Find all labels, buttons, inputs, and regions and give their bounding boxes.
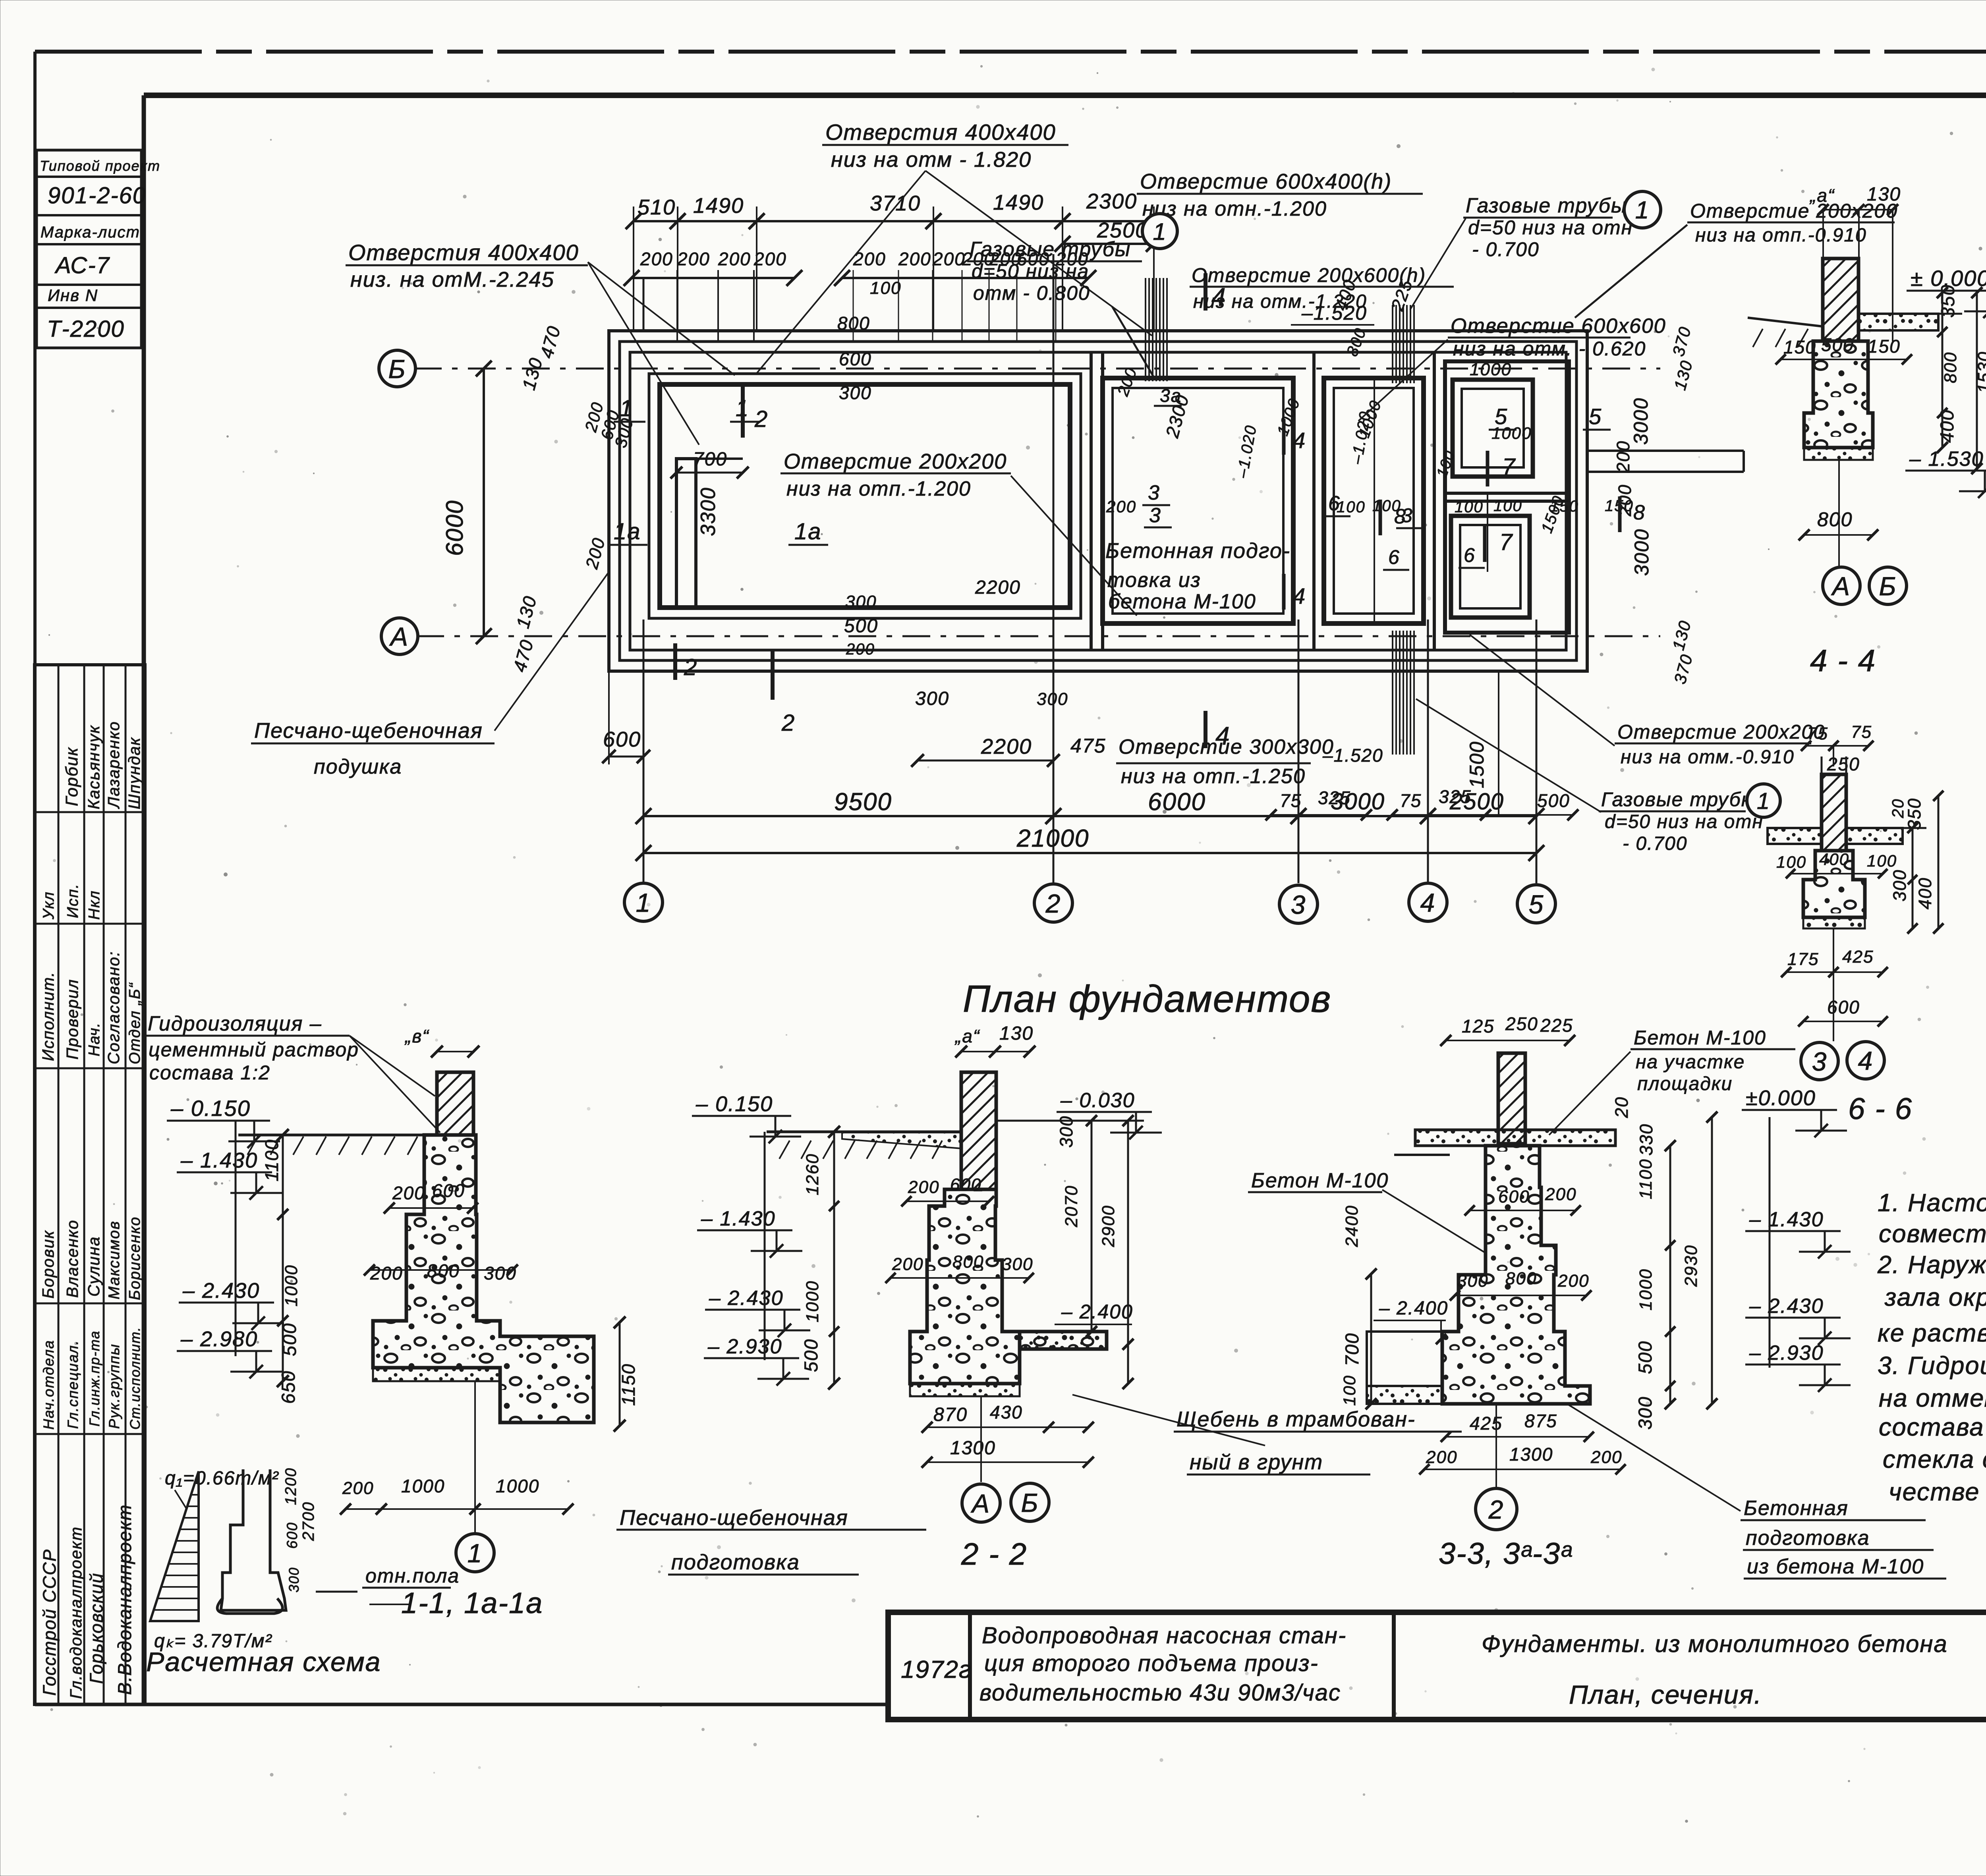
- svg-text:отм - 0.800: отм - 0.800: [973, 282, 1090, 304]
- svg-text:75: 75: [1400, 790, 1422, 811]
- row of 200 dimensions above plan: [632, 277, 794, 279]
- inner drawing frame: [144, 93, 1986, 98]
- svg-text:3000: 3000: [1631, 529, 1653, 576]
- svg-text:d=50 низ на отн: d=50 низ на отн: [1468, 216, 1633, 239]
- partition wall between hall and room 3: [1090, 352, 1093, 650]
- svg-text:q₁=0.66т/м²: q₁=0.66т/м²: [165, 1468, 279, 1489]
- svg-text:200: 200: [370, 1263, 403, 1283]
- svg-text:200: 200: [342, 1478, 374, 1498]
- svg-text:1: 1: [468, 1538, 483, 1568]
- section 1-1: dims 200 800 300: [369, 1269, 512, 1271]
- svg-text:В.Водоканалпроект: В.Водоканалпроект: [114, 1504, 135, 1695]
- svg-text:500: 500: [1634, 1341, 1656, 1374]
- svg-text:875: 875: [1524, 1411, 1557, 1431]
- svg-text:на отметке - 0.020 из цементн: на отметке - 0.020 из цементного раствор…: [1879, 1384, 1986, 1412]
- svg-text:870: 870: [933, 1404, 968, 1425]
- svg-text:800: 800: [1817, 508, 1853, 531]
- svg-text:8: 8: [1394, 505, 1406, 528]
- svg-text:6000: 6000: [441, 500, 468, 556]
- svg-text:3: 3: [1148, 481, 1160, 504]
- svg-text:2070: 2070: [1062, 1185, 1081, 1228]
- svg-text:1300: 1300: [950, 1438, 996, 1459]
- svg-text:– 2.980: – 2.980: [180, 1327, 258, 1351]
- svg-text:1: 1: [1757, 788, 1770, 814]
- svg-text:1а: 1а: [614, 519, 641, 544]
- svg-text:4: 4: [1293, 583, 1306, 608]
- svg-text:200: 200: [908, 1177, 939, 1197]
- svg-text:Отверстия 400х400: Отверстия 400х400: [348, 240, 579, 265]
- svg-text:20: 20: [1611, 1096, 1632, 1118]
- section cut 8 vertical line in room 6: [1374, 378, 1375, 623]
- svg-text:5: 5: [1529, 890, 1544, 919]
- section 3-3: dims 600 200: [1470, 1210, 1576, 1211]
- svg-text:225: 225: [1540, 1015, 1573, 1036]
- section 3-3: left step slab: [1367, 1386, 1442, 1404]
- svg-text:150: 150: [1868, 336, 1901, 357]
- svg-text:500: 500: [800, 1339, 821, 1372]
- section 1-1: dims 200 600: [389, 1207, 473, 1209]
- svg-text:подушка: подушка: [314, 755, 402, 778]
- svg-text:- 0.700: - 0.700: [1623, 833, 1687, 854]
- section 4-4: bottom dim 800: [1804, 534, 1873, 536]
- svg-text:Гл.специал.: Гл.специал.: [65, 1340, 81, 1429]
- svg-text:План фундаментов: План фундаментов: [963, 978, 1331, 1020]
- svg-text:125: 125: [1462, 1016, 1495, 1036]
- svg-text:подготовка: подготовка: [671, 1550, 800, 1574]
- svg-text:4: 4: [1215, 722, 1231, 750]
- svg-text:Газовые трубы: Газовые трубы: [970, 238, 1131, 261]
- section 1-1: gravel under base: [373, 1368, 500, 1381]
- section 6-6: gravel: [1803, 917, 1865, 928]
- svg-text:Отверстие 200х200: Отверстие 200х200: [784, 450, 1007, 473]
- section 6-6: dims 100 400 100: [1791, 873, 1883, 874]
- svg-text:200: 200: [932, 249, 966, 269]
- section 6-6: axis line and circles 3 4: [1833, 928, 1834, 1041]
- svg-text:„а“: „а“: [954, 1026, 980, 1046]
- svg-text:600: 600: [950, 1175, 981, 1195]
- svg-text:Отверстие 200х600(h): Отверстие 200х600(h): [1192, 264, 1426, 286]
- pipe note circle 1 (left): [1142, 214, 1177, 249]
- svg-text:Фундаменты. из монолитного бет: Фундаменты. из монолитного бетона: [1482, 1631, 1948, 1657]
- svg-text:200: 200: [1613, 440, 1633, 473]
- svg-text:425: 425: [1842, 947, 1874, 967]
- svg-text:Бетонная подго-: Бетонная подго-: [1105, 539, 1291, 563]
- svg-text:300: 300: [1889, 869, 1910, 901]
- svg-text:Щебень в трамбован-: Щебень в трамбован-: [1177, 1407, 1416, 1431]
- load diagram triangle: [150, 1471, 199, 1621]
- svg-text:А: А: [389, 622, 409, 651]
- section 4-4: hatched wall: [1823, 259, 1858, 341]
- svg-text:„в“: „в“: [404, 1026, 429, 1046]
- svg-text:300: 300: [484, 1263, 517, 1283]
- svg-text:состава 1:2 с добавлением: состава 1:2 с добавлением жидкого: [1879, 1413, 1986, 1441]
- svg-text:ный в грунт: ный в грунт: [1190, 1450, 1323, 1474]
- svg-text:товка из: товка из: [1107, 569, 1201, 592]
- axis А horizontal dash-dot line: [416, 635, 1660, 637]
- svg-text:Касьянчук: Касьянчук: [85, 725, 103, 809]
- outer sheet border (dash-dot): [35, 50, 1986, 54]
- vertical dim 6000 between axes: [483, 369, 485, 636]
- svg-text:200: 200: [1106, 497, 1136, 516]
- svg-text:6000: 6000: [1148, 788, 1206, 816]
- svg-text:7: 7: [1499, 529, 1513, 555]
- svg-text:– 2.930: – 2.930: [1749, 1341, 1824, 1365]
- svg-text:3: 3: [1149, 504, 1161, 527]
- svg-text:325: 325: [1318, 787, 1351, 808]
- svg-text:Горьковский: Горьковский: [86, 1573, 106, 1684]
- svg-text:700: 700: [693, 449, 727, 470]
- svg-text:низ на отп.-1.200: низ на отп.-1.200: [786, 477, 971, 500]
- svg-text:низ. на отМ.-2.245: низ. на отМ.-2.245: [350, 268, 554, 291]
- svg-text:200: 200: [718, 249, 751, 269]
- svg-text:– 2.430: – 2.430: [709, 1287, 784, 1310]
- pipe note circle 1 (right): [1624, 191, 1661, 228]
- section 3-3: left open box: [1367, 1332, 1442, 1386]
- svg-text:Власенко: Власенко: [63, 1220, 81, 1298]
- svg-text:2300: 2300: [1086, 189, 1137, 213]
- title block frame: [888, 1612, 1986, 1720]
- svg-text:2 - 2: 2 - 2: [961, 1536, 1027, 1571]
- section 2-2: bottom dims 870 430 1300: [927, 1426, 1049, 1428]
- svg-text:200: 200: [1545, 1185, 1576, 1204]
- svg-text:низ на отм. - 0.620: низ на отм. - 0.620: [1453, 338, 1646, 360]
- svg-text:130: 130: [999, 1023, 1034, 1044]
- svg-text:низ на отп.-1.250: низ на отп.-1.250: [1121, 765, 1306, 788]
- section 3-3: bottom dims 425 875 / 200 1300 200: [1446, 1436, 1589, 1438]
- svg-text:1000: 1000: [496, 1476, 539, 1496]
- extension lines from top chain to wall: [633, 207, 634, 331]
- svg-text:5: 5: [1589, 404, 1602, 429]
- section 1-1: concrete footing body: [373, 1135, 594, 1422]
- underlines for pipe notes: [967, 261, 1142, 262]
- svg-text:800: 800: [837, 313, 870, 334]
- svg-text:1500: 1500: [1466, 741, 1488, 788]
- svg-text:Нач.: Нач.: [86, 1022, 103, 1056]
- svg-text:200: 200: [846, 641, 875, 658]
- svg-text:100: 100: [1867, 851, 1897, 870]
- left stamp column table: [35, 665, 145, 1704]
- svg-text:300: 300: [1037, 689, 1068, 709]
- svg-text:21000: 21000: [1016, 825, 1089, 852]
- svg-text:1: 1: [620, 396, 633, 421]
- svg-text:1. Настоящий чертеж рассматр: 1. Настоящий чертеж рассматривать: [1878, 1189, 1986, 1217]
- svg-text:честве 3.5% от веса цемен: честве 3.5% от веса цемента.: [1889, 1478, 1986, 1506]
- svg-text:1000: 1000: [803, 1280, 822, 1322]
- svg-text:низ на отм.-0.910: низ на отм.-0.910: [1621, 747, 1795, 768]
- section 6-6: bottom dim 600: [1803, 1021, 1883, 1022]
- section 4-4 vertical dim lines: [1942, 293, 1943, 448]
- svg-text:– 1.530: – 1.530: [1909, 448, 1984, 471]
- svg-text:150: 150: [1783, 337, 1816, 357]
- svg-text:– 2.400: – 2.400: [1061, 1301, 1133, 1323]
- svg-text:1490: 1490: [993, 191, 1044, 214]
- svg-text:800: 800: [1941, 352, 1960, 383]
- svg-text:Исп.: Исп.: [64, 883, 81, 918]
- svg-text:8: 8: [1633, 501, 1646, 524]
- section 6-6: hatched wall: [1822, 774, 1846, 851]
- svg-text:Гл.инж.пр-та: Гл.инж.пр-та: [87, 1330, 102, 1426]
- axis circle 2: [1034, 884, 1072, 922]
- svg-text:1000: 1000: [282, 1264, 301, 1307]
- svg-text:75: 75: [1851, 722, 1872, 742]
- section 3-3: floor slab: [1415, 1130, 1615, 1146]
- machine hall room outline: [660, 384, 1070, 608]
- svg-text:500: 500: [844, 616, 878, 637]
- bottom dim 2200/475 and opening note: [918, 760, 1053, 762]
- axis circle 1: [624, 883, 663, 921]
- dimension chain 9500/6000/3000/2500: [643, 815, 1053, 817]
- svg-text:из бетона М-100: из бетона М-100: [1747, 1555, 1924, 1578]
- svg-text:2: 2: [754, 406, 768, 432]
- gas pipes bundle crossing top wall near cells: [1392, 305, 1393, 383]
- dimension 2500 above plan: [1063, 243, 1154, 245]
- svg-text:Борисенко: Борисенко: [126, 1216, 143, 1300]
- svg-text:425: 425: [1470, 1413, 1503, 1434]
- gas pipes bundle crossing top wall at axis 2: [1145, 278, 1146, 381]
- foundation plan: outer foundation contour: [609, 331, 1587, 671]
- svg-text:600: 600: [432, 1180, 465, 1201]
- section 3-3 vertical dim lines: [1370, 1274, 1372, 1404]
- section 2-2: ground line and fill: [767, 1131, 961, 1133]
- section 2-2: concrete footing: [910, 1189, 1107, 1384]
- svg-text:– 1.430: – 1.430: [1749, 1208, 1824, 1231]
- svg-text:100: 100: [1337, 498, 1366, 516]
- svg-text:250: 250: [1505, 1013, 1538, 1034]
- svg-text:Госстрой СССР: Госстрой СССР: [39, 1549, 60, 1696]
- svg-text:200: 200: [1426, 1448, 1457, 1467]
- svg-text:1000: 1000: [401, 1476, 445, 1496]
- svg-text:200: 200: [677, 249, 710, 269]
- section 2-2: dims 200 600: [906, 1200, 989, 1202]
- svg-text:100: 100: [1493, 497, 1522, 515]
- svg-text:2900: 2900: [1099, 1205, 1118, 1247]
- top dimension chain 510/1490/3710/1490/2300: [634, 220, 678, 222]
- svg-text:Горбик: Горбик: [62, 747, 81, 806]
- svg-text:Водопроводная насосная стан-: Водопроводная насосная стан-: [982, 1623, 1347, 1648]
- section cut 8 vertical line in cells block: [1487, 493, 1488, 572]
- cell 7/6 lower: [1451, 516, 1530, 618]
- svg-text:1: 1: [1153, 218, 1167, 245]
- section 3-3: top dims 125 250 225: [1446, 1040, 1570, 1041]
- section 4-4: ground line left: [1748, 318, 1823, 326]
- svg-text:200: 200: [392, 1183, 425, 1203]
- svg-text:800: 800: [427, 1260, 460, 1281]
- svg-text:– 2.400: – 2.400: [1379, 1298, 1448, 1319]
- svg-text:600: 600: [284, 1522, 300, 1549]
- bottom dims 75/325 pairs and 500: [1271, 814, 1366, 816]
- svg-text:325: 325: [1439, 786, 1472, 807]
- svg-text:водительностью 43и 90м3/час: водительностью 43и 90м3/час: [979, 1680, 1341, 1706]
- svg-text:3710: 3710: [870, 191, 921, 215]
- svg-text:130: 130: [1867, 184, 1901, 205]
- svg-text:– 0.030: – 0.030: [1060, 1089, 1135, 1112]
- svg-text:6: 6: [1464, 544, 1476, 566]
- partition between room 3 and room 6: [1312, 352, 1316, 650]
- svg-text:510: 510: [638, 195, 676, 219]
- svg-text:– 0.150: – 0.150: [695, 1092, 773, 1116]
- svg-text:Расчетная схема: Расчетная схема: [146, 1647, 381, 1677]
- floor mark near scheme: [316, 1591, 357, 1593]
- room 3 outline: [1103, 378, 1293, 623]
- svg-text:– 0.150: – 0.150: [170, 1096, 251, 1121]
- svg-text:Ст.исполнит.: Ст.исполнит.: [128, 1326, 143, 1430]
- axis circle А: [381, 618, 418, 654]
- svg-text:1000: 1000: [1470, 360, 1512, 379]
- svg-text:300: 300: [915, 688, 949, 709]
- svg-text:330: 330: [1636, 1123, 1656, 1156]
- canal walls extending right: [1587, 450, 1744, 452]
- section 2-2: axis circles А Б: [980, 1396, 982, 1482]
- svg-text:100: 100: [1340, 1375, 1359, 1406]
- svg-text:300: 300: [845, 592, 877, 612]
- svg-text:1а: 1а: [794, 519, 822, 544]
- svg-text:4 - 4: 4 - 4: [1810, 643, 1876, 678]
- svg-text:200: 200: [640, 249, 673, 269]
- svg-text:d=50 низ на: d=50 низ на: [972, 260, 1089, 282]
- svg-text:низ на отм.-1.220: низ на отм.-1.220: [1193, 291, 1367, 312]
- svg-text:2700: 2700: [299, 1502, 317, 1541]
- svg-text:1000: 1000: [1636, 1268, 1656, 1310]
- svg-text:низ на отм - 1.820: низ на отм - 1.820: [831, 148, 1032, 172]
- svg-text:4: 4: [1420, 888, 1436, 917]
- svg-text:Шпундак: Шпундак: [125, 737, 143, 809]
- svg-text:600: 600: [1827, 997, 1860, 1017]
- section 3-3: concrete column and footing: [1442, 1146, 1590, 1404]
- section 6-6: top dims 75/75 250: [1806, 745, 1833, 747]
- svg-text:2: 2: [1045, 889, 1061, 918]
- svg-text:А: А: [1831, 571, 1851, 601]
- svg-text:±0.000: ±0.000: [1746, 1086, 1816, 1110]
- svg-text:75: 75: [1807, 724, 1828, 743]
- svg-text:Сулина: Сулина: [85, 1236, 103, 1297]
- svg-text:300: 300: [1002, 1255, 1033, 1274]
- vertical axis lines 1..5: [643, 620, 645, 883]
- svg-text:отн.пола: отн.пола: [365, 1565, 460, 1587]
- svg-text:состава 1:2: состава 1:2: [149, 1062, 270, 1084]
- svg-text:300: 300: [1056, 1116, 1076, 1148]
- svg-text:100: 100: [1455, 498, 1484, 516]
- svg-text:700: 700: [1341, 1333, 1362, 1366]
- svg-text:250: 250: [1827, 754, 1860, 774]
- scan speckles: [1617, 100, 1619, 102]
- svg-text:Нач.отдела: Нач.отдела: [41, 1340, 57, 1430]
- svg-text:3000: 3000: [1630, 398, 1652, 445]
- svg-text:– 2.430: – 2.430: [1749, 1295, 1824, 1318]
- mini footing profile: [221, 1469, 286, 1610]
- svg-text:200: 200: [753, 249, 787, 269]
- svg-text:низ на отп.-0.910: низ на отп.-0.910: [1695, 225, 1867, 246]
- svg-text:– 2.430: – 2.430: [182, 1279, 260, 1303]
- extra extension verticals above plan: [676, 270, 678, 342]
- svg-text:Б: Б: [1021, 1488, 1039, 1517]
- svg-text:Согласовано:: Согласовано:: [104, 951, 123, 1064]
- dim 600 below left wall: [609, 756, 643, 758]
- section 4-4: axis circles А Б: [1838, 460, 1840, 566]
- svg-text:1100: 1100: [261, 1139, 282, 1181]
- svg-text:430: 430: [990, 1402, 1023, 1422]
- svg-text:200: 200: [1557, 1271, 1589, 1291]
- svg-text:2400: 2400: [1342, 1205, 1362, 1247]
- pit rectangle in machine hall: [676, 459, 696, 608]
- svg-text:1: 1: [1635, 197, 1650, 224]
- svg-text:Гидроизоляция –: Гидроизоляция –: [148, 1012, 322, 1035]
- svg-text:2200: 2200: [975, 577, 1021, 598]
- svg-text:7: 7: [1502, 454, 1516, 480]
- section 1-1: ground line: [238, 1134, 437, 1137]
- axis circle 3: [1279, 885, 1318, 923]
- svg-text:Исполнит.: Исполнит.: [39, 971, 57, 1061]
- svg-text:А: А: [970, 1489, 990, 1518]
- svg-text:- 0.700: - 0.700: [1472, 238, 1540, 261]
- svg-text:3: 3: [1291, 890, 1306, 919]
- svg-text:2: 2: [1488, 1495, 1504, 1524]
- svg-text:3-3, 3ᵃ-3ᵃ: 3-3, 3ᵃ-3ᵃ: [1439, 1537, 1572, 1571]
- svg-text:1-1, 1а-1а: 1-1, 1а-1а: [401, 1586, 543, 1619]
- section 4-4: floor slab right: [1858, 314, 1938, 330]
- svg-text:400: 400: [1819, 850, 1849, 869]
- cells block outline: [1445, 361, 1569, 633]
- svg-text:901-2-60: 901-2-60: [48, 183, 146, 208]
- svg-text:600: 600: [1498, 1187, 1530, 1206]
- section 2-2: dims 200 800 300: [891, 1277, 1029, 1279]
- gas pipes bundle below bottom wall: [1392, 631, 1393, 755]
- section 2-2 vertical dim lines: [833, 1132, 835, 1384]
- svg-text:Б: Б: [1879, 571, 1897, 601]
- svg-text:ция второго подъема произ-: ция второго подъема произ-: [984, 1650, 1319, 1676]
- svg-text:1: 1: [636, 888, 651, 917]
- svg-text:Отверстие 600х600: Отверстие 600х600: [1451, 315, 1666, 338]
- axis circle 5: [1517, 885, 1555, 923]
- section 4-4: gravel under base: [1804, 448, 1873, 460]
- svg-text:2200: 2200: [981, 735, 1032, 759]
- svg-text:3: 3: [1812, 1047, 1828, 1076]
- svg-text:Боровик: Боровик: [39, 1230, 57, 1299]
- svg-text:бетона М-100: бетона М-100: [1108, 590, 1256, 613]
- svg-text:Бетон М-100: Бетон М-100: [1251, 1169, 1389, 1192]
- svg-text:Типовой проект: Типовой проект: [40, 158, 160, 174]
- svg-text:300: 300: [1634, 1396, 1656, 1430]
- svg-text:Б: Б: [388, 354, 406, 384]
- cell 5/7 upper: [1453, 380, 1533, 477]
- svg-text:Отверстие 600х400(h): Отверстие 600х400(h): [1140, 170, 1392, 193]
- svg-text:– 2.930: – 2.930: [707, 1335, 782, 1358]
- svg-text:подготовка: подготовка: [1746, 1527, 1870, 1550]
- svg-text:2930: 2930: [1681, 1245, 1701, 1287]
- svg-text:Рук.группы: Рук.группы: [106, 1343, 122, 1429]
- svg-text:АС-7: АС-7: [54, 253, 110, 278]
- svg-text:200: 200: [898, 249, 931, 269]
- svg-text:300: 300: [286, 1567, 302, 1592]
- svg-text:200: 200: [1590, 1448, 1622, 1467]
- axis circle 4: [1409, 883, 1447, 921]
- svg-text:800: 800: [952, 1252, 984, 1272]
- section 4-4: dims 150 500 150: [1781, 359, 1907, 360]
- section 2-2: right thin slab -2.400: [1020, 1332, 1107, 1349]
- svg-text:на участке: на участке: [1636, 1052, 1745, 1073]
- svg-text:цементный раствор: цементный раствор: [149, 1038, 359, 1061]
- svg-text:1150: 1150: [618, 1363, 639, 1406]
- svg-text:стекла с удельным весом 1.40: стекла с удельным весом 1.40-1.42 в коли…: [1883, 1446, 1986, 1473]
- section 6-6 vertical dim lines: [1912, 828, 1914, 928]
- svg-text:„а“: „а“: [1809, 185, 1835, 206]
- svg-text:100: 100: [1776, 853, 1806, 871]
- svg-text:400: 400: [1915, 877, 1935, 909]
- svg-text:475: 475: [1070, 735, 1106, 757]
- svg-text:9500: 9500: [834, 788, 892, 816]
- svg-text:100: 100: [870, 278, 901, 298]
- svg-text:800: 800: [1505, 1269, 1537, 1288]
- svg-text:– 1.430: – 1.430: [180, 1148, 258, 1172]
